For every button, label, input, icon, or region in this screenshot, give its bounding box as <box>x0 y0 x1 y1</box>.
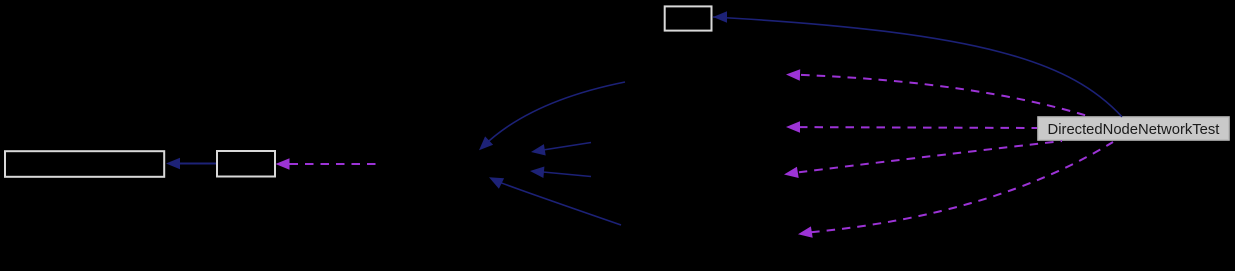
edge E1: box2 -> box1 (solid midnightblue inheritance arrow) <box>166 158 216 170</box>
edge E11: DirectedNodeNetworkTest -> box3 (solid blue long curved arrow) <box>713 11 1122 117</box>
edge E8: DirectedNodeNetworkTest -> middle node 2 (dashed darkorchid straight arrow) <box>786 121 1037 133</box>
edge E6: lower-middle node -> center node (solid blue curved arrow) <box>489 177 621 225</box>
svg-text:DirectedNodeNetworkTest: DirectedNodeNetworkTest <box>1048 122 1220 138</box>
node DirectedNodeNetworkTest (current class, grey filled) <box>1038 117 1229 140</box>
node box1 (bottom-left long class box) <box>5 151 164 177</box>
node box3 (top class box) <box>665 6 712 30</box>
edge E9: DirectedNodeNetworkTest -> middle node 3 (dashed darkorchid curved arrow) <box>784 141 1062 178</box>
edge E3: upper-middle node -> center node (solid blue curved arrow) <box>479 82 625 150</box>
edge E4: middle node 2 -> center node (solid blue straight arrow) <box>531 143 591 156</box>
edge E5: middle node 3 -> center node (solid blue straight arrow) <box>530 167 591 179</box>
edge E2: center node -> box2 (dashed darkorchid usage arrow) <box>276 158 378 170</box>
node box2 (small class box) <box>217 151 275 177</box>
edge E10: DirectedNodeNetworkTest -> middle node 4 (dashed darkorchid curved arrow) <box>798 142 1113 238</box>
edge E7: DirectedNodeNetworkTest -> middle node 1 (dashed darkorchid curved arrow) <box>786 69 1091 117</box>
